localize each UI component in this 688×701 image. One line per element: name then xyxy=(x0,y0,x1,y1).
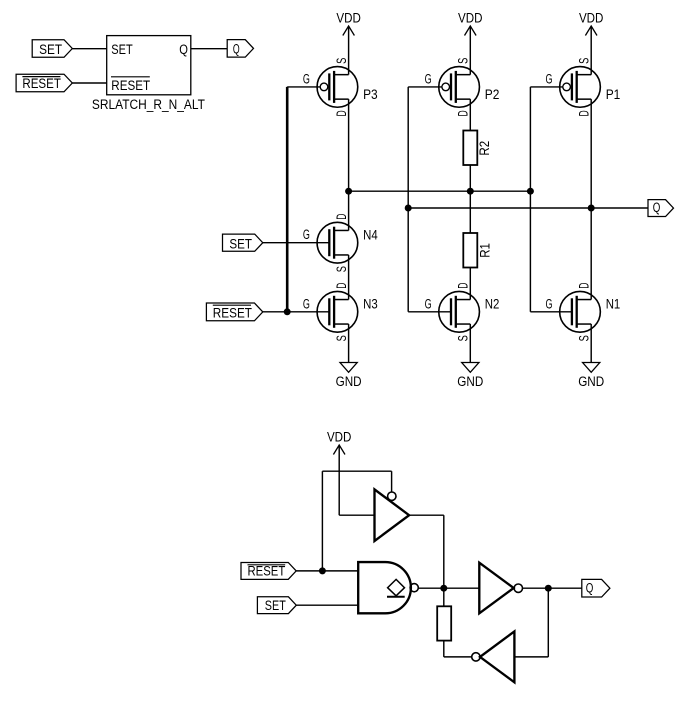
svg-text:Q: Q xyxy=(233,42,240,57)
svg-text:GND: GND xyxy=(457,374,483,389)
svg-text:G: G xyxy=(425,71,432,86)
svg-text:S: S xyxy=(577,335,592,341)
svg-text:P2: P2 xyxy=(485,87,500,102)
svg-text:Q: Q xyxy=(179,42,188,57)
svg-text:RESET: RESET xyxy=(213,305,252,320)
svg-text:VDD: VDD xyxy=(336,11,361,26)
svg-text:GND: GND xyxy=(336,374,362,389)
svg-text:VDD: VDD xyxy=(579,11,604,26)
svg-text:S: S xyxy=(334,266,349,272)
svg-text:D: D xyxy=(334,110,349,116)
svg-text:G: G xyxy=(546,71,553,86)
svg-text:N3: N3 xyxy=(363,296,378,311)
svg-text:D: D xyxy=(334,213,349,219)
svg-text:G: G xyxy=(546,296,553,311)
svg-text:S: S xyxy=(456,335,471,341)
svg-text:N1: N1 xyxy=(606,296,621,311)
svg-text:S: S xyxy=(456,58,471,64)
svg-text:S: S xyxy=(334,335,349,341)
svg-text:RESET: RESET xyxy=(22,76,61,91)
svg-text:Q: Q xyxy=(586,581,594,596)
svg-text:SRLATCH_R_N_ALT: SRLATCH_R_N_ALT xyxy=(92,97,205,112)
svg-text:D: D xyxy=(456,282,471,288)
svg-text:N4: N4 xyxy=(363,227,378,242)
svg-text:G: G xyxy=(303,71,310,86)
svg-text:D: D xyxy=(577,282,592,288)
svg-text:P3: P3 xyxy=(363,87,378,102)
svg-text:G: G xyxy=(303,227,310,242)
svg-text:N2: N2 xyxy=(485,296,500,311)
svg-text:S: S xyxy=(577,58,592,64)
svg-text:VDD: VDD xyxy=(327,430,352,445)
svg-text:S: S xyxy=(334,58,349,64)
svg-text:RESET: RESET xyxy=(111,78,150,93)
svg-text:G: G xyxy=(303,296,310,311)
svg-text:D: D xyxy=(577,110,592,116)
svg-text:SET: SET xyxy=(39,42,62,57)
svg-text:G: G xyxy=(425,296,432,311)
svg-text:D: D xyxy=(456,110,471,116)
svg-text:GND: GND xyxy=(578,374,604,389)
svg-text:R2: R2 xyxy=(477,141,492,156)
svg-text:P1: P1 xyxy=(606,87,621,102)
svg-text:VDD: VDD xyxy=(458,11,483,26)
svg-text:Q: Q xyxy=(653,200,661,215)
svg-text:R1: R1 xyxy=(478,243,493,258)
svg-text:SET: SET xyxy=(111,42,132,57)
svg-text:SET: SET xyxy=(229,237,252,252)
svg-text:D: D xyxy=(334,282,349,288)
svg-text:SET: SET xyxy=(265,598,286,613)
svg-text:RESET: RESET xyxy=(248,563,286,578)
